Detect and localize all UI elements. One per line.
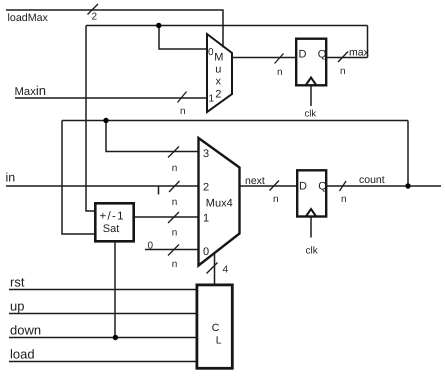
svg-text:Sat: Sat — [103, 223, 120, 235]
wire up to CL — [9, 313, 196, 315]
svg-text:2: 2 — [215, 89, 221, 101]
wire load to CL — [9, 361, 196, 363]
svg-text:+/-1: +/-1 — [100, 211, 125, 223]
bus slash n on max output — [338, 52, 348, 63]
wire count feedback to Mux4 input 3 — [106, 121, 199, 152]
bus slash n on Mux4 input 3 — [168, 147, 179, 158]
svg-text:max: max — [349, 47, 370, 59]
wire Q of U1 max output — [327, 57, 367, 59]
svg-text:down: down — [10, 323, 41, 338]
wire Sat bottom to down line — [114, 242, 116, 338]
wire max feedback to Mux2 input 0 — [159, 26, 207, 50]
bus slash n on count — [340, 181, 347, 191]
svg-text:n: n — [172, 228, 178, 239]
node junction on count feedback — [103, 118, 108, 123]
wire Mux2 output to D of flip-flop U1 — [232, 57, 296, 59]
svg-text:2: 2 — [203, 182, 209, 194]
bus slash n on in — [169, 181, 180, 192]
flip-flop U2 count register rectangle — [297, 170, 326, 216]
svg-text:loadMax: loadMax — [8, 12, 49, 24]
wire Mux4 select from CL — [214, 253, 216, 284]
svg-text:n: n — [277, 67, 283, 78]
bus slash 4 on select — [207, 263, 218, 274]
svg-text:Maxin: Maxin — [15, 83, 46, 98]
bus slash n on next — [270, 181, 280, 191]
node junction on max feedback — [156, 23, 161, 28]
flip-flop U1 max register rectangle — [296, 39, 326, 86]
svg-text:C: C — [212, 322, 220, 334]
bus slash 2 on loadMax — [88, 4, 99, 15]
svg-text:next: next — [245, 175, 265, 187]
bus slash n on Mux4 input 0 — [168, 245, 179, 256]
wire count feedback down to Sat input 2 — [62, 121, 94, 235]
svg-text:1: 1 — [203, 213, 209, 225]
mux M1 Mux2 trapezoid — [207, 34, 232, 112]
svg-text:4: 4 — [223, 265, 229, 276]
block A1 +/-1 Sat rectangle — [95, 203, 133, 241]
svg-text:L: L — [216, 335, 222, 347]
wire clk to U2 — [310, 218, 312, 238]
wire in to Mux4 input 2 — [6, 185, 199, 187]
svg-text:n: n — [341, 194, 347, 205]
svg-text:n: n — [340, 66, 346, 77]
svg-text:n: n — [273, 194, 279, 205]
wire count output bend down from feedback — [407, 121, 409, 187]
svg-text:n: n — [180, 106, 186, 117]
node junction down line to Sat — [113, 335, 118, 340]
wire Sat output to Mux4 input 1 — [135, 216, 200, 218]
svg-text:D: D — [299, 181, 307, 193]
svg-text:clk: clk — [305, 109, 317, 120]
svg-text:Q: Q — [318, 181, 327, 193]
svg-text:3: 3 — [203, 148, 209, 160]
wire count feedback horizontal — [62, 120, 408, 122]
clock triangle of U2 — [306, 209, 317, 217]
wire max feedback to Sat input — [86, 26, 94, 212]
svg-text:0: 0 — [203, 246, 209, 258]
svg-text:up: up — [10, 299, 24, 314]
svg-text:in: in — [6, 171, 16, 185]
node junction on count output — [405, 183, 410, 188]
svg-text:D: D — [299, 49, 307, 61]
wire clk to U1 — [310, 86, 312, 106]
svg-text:x: x — [216, 76, 222, 88]
svg-text:load: load — [10, 347, 35, 362]
wire max feedback horizontal — [86, 25, 368, 27]
wire down to CL — [9, 337, 196, 339]
svg-text:1: 1 — [209, 94, 215, 105]
svg-text:clk: clk — [306, 246, 319, 257]
svg-text:0: 0 — [208, 47, 214, 58]
svg-text:Q: Q — [318, 49, 327, 61]
svg-text:rst: rst — [10, 275, 25, 290]
bus slash n on Maxin — [178, 92, 187, 103]
wire next from Mux4 to D of flip-flop U2 — [240, 185, 297, 187]
wire max output bend down to feedback — [367, 26, 369, 58]
wire stub on in line — [158, 186, 160, 195]
wire count output from Q of U2 to right edge — [327, 185, 441, 187]
mux M2 Mux4 trapezoid — [199, 138, 240, 266]
bus slash n on Mux2 output — [275, 54, 284, 64]
block U3 CL combinational logic rectangle — [197, 285, 232, 368]
wire constant 0 to Mux4 input 0 — [145, 249, 199, 251]
wire Maxin to Mux2 input 1 — [15, 97, 207, 99]
svg-text:n: n — [172, 259, 178, 270]
svg-text:0: 0 — [148, 241, 154, 252]
clock triangle of U1 — [306, 78, 317, 86]
svg-text:n: n — [172, 197, 178, 208]
svg-text:n: n — [172, 163, 178, 174]
svg-text:count: count — [359, 174, 385, 186]
svg-text:2: 2 — [92, 12, 98, 23]
svg-text:u: u — [215, 64, 221, 76]
svg-text:M: M — [214, 52, 223, 64]
bus slash n on Mux4 input 1 — [168, 212, 179, 223]
wire loadMax top line with bend into Mux2 select — [6, 10, 223, 48]
wire rst to CL — [9, 289, 196, 291]
svg-text:Mux4: Mux4 — [206, 198, 233, 210]
